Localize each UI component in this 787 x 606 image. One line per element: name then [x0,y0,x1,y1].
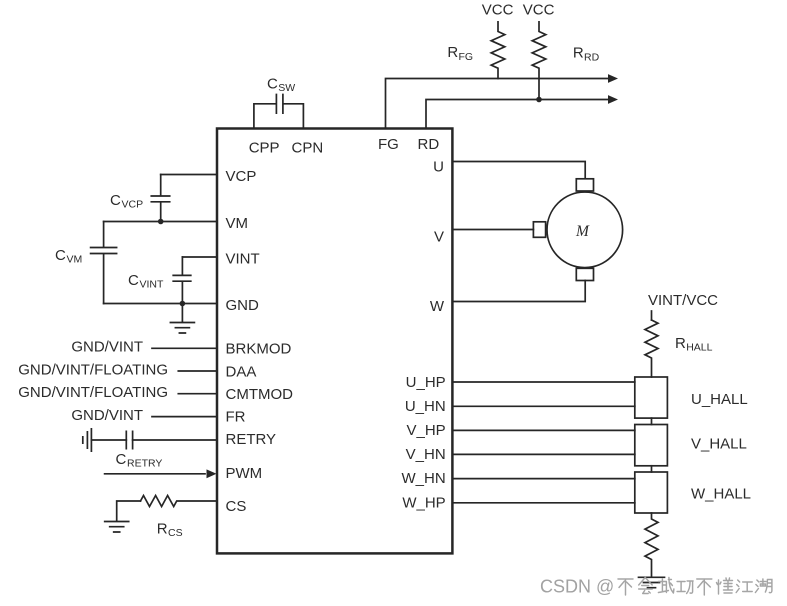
svg-text:V_HALL: V_HALL [691,436,747,453]
wire V_HP [452,429,634,431]
svg-text:W_HP: W_HP [402,495,445,512]
svg-text:CPP: CPP [249,140,280,157]
svg-text:C: C [55,247,66,264]
pin GND wire [104,303,217,305]
svg-text:RETRY: RETRY [226,431,277,448]
svg-text:C: C [128,272,139,289]
svg-text:VM: VM [67,254,83,266]
svg-text:V: V [434,229,444,246]
svg-text:GND: GND [226,297,260,314]
wire DAA [178,370,217,372]
wire CS / ground leg [117,501,141,521]
resistor RCS [141,496,218,507]
svg-text:SW: SW [278,82,295,94]
svg-text:DAA: DAA [226,364,257,381]
svg-text:U_HP: U_HP [406,374,446,391]
wire RETRY right [133,439,217,441]
svg-text:C: C [267,76,278,93]
pin VCP wire [161,174,217,176]
wire W phase [452,281,585,302]
svg-text:R: R [573,45,584,62]
svg-text:VINT: VINT [140,279,165,291]
node junction on RD bus [536,97,542,103]
svg-text:VCP: VCP [122,199,144,211]
svg-text:W: W [430,298,445,315]
arrow PWM input [207,469,217,478]
svg-text:CSDN @: CSDN @ [540,577,614,597]
ground symbol (rotated, RETRY) [83,429,92,451]
motor terminal bottom [576,268,593,280]
pin VM wire [104,221,217,223]
capacitor CSW [254,95,304,129]
wire W_HN [452,478,634,480]
hall sensor W_HALL [635,472,668,513]
watermark chinese glyphs [618,578,772,596]
capacitor CRETRY [126,431,132,448]
svg-text:RD: RD [584,52,600,64]
svg-text:PWM: PWM [226,465,263,482]
ground symbol (GND pin) [170,304,194,334]
wire FR [152,416,217,418]
wire RD [426,100,609,129]
arrow FG output [608,74,618,83]
svg-text:C: C [116,451,127,468]
hall sensor V_HALL [635,425,668,466]
wire W_HP [452,502,634,504]
node junction VM/CVCP [158,219,164,225]
resistor hall bottom [645,513,658,577]
wire U phase [452,162,585,179]
op-amp U1 (main driver IC body) [217,129,452,554]
svg-text:R: R [447,44,458,61]
svg-text:CPN: CPN [292,140,324,157]
svg-text:VINT: VINT [226,251,260,268]
svg-text:VCC: VCC [482,2,514,19]
motor M1 body [547,192,623,268]
svg-text:CMTMOD: CMTMOD [226,386,294,403]
svg-text:U: U [433,159,444,176]
ground symbol (RCS) [105,522,129,533]
node junction GND/CVINT [180,301,186,307]
hall sensor U_HALL [635,377,668,418]
capacitor CVINT [173,257,191,304]
svg-text:RETRY: RETRY [127,458,162,470]
svg-text:V_HP: V_HP [407,422,446,439]
svg-text:M: M [575,223,590,240]
svg-text:RD: RD [418,136,440,153]
svg-text:C: C [110,192,121,209]
ground symbol (hall bottom) [639,577,665,587]
svg-text:W_HALL: W_HALL [691,486,751,503]
wire V_HN [452,453,634,455]
resistor RRD [532,22,546,100]
wire BRKMOD [152,347,217,349]
svg-text:VCP: VCP [226,168,257,185]
svg-text:GND/VINT/FLOATING: GND/VINT/FLOATING [18,362,168,379]
svg-text:GND/VINT: GND/VINT [71,339,143,356]
svg-text:CS: CS [226,498,247,515]
svg-text:GND/VINT: GND/VINT [71,407,143,424]
svg-text:GND/VINT/FLOATING: GND/VINT/FLOATING [18,384,168,401]
wire U_HALL to V_HALL [651,418,653,424]
capacitor CVM [91,222,117,304]
svg-text:R: R [157,521,168,538]
motor terminal left [533,222,545,238]
svg-text:CS: CS [168,527,183,539]
svg-text:BRKMOD: BRKMOD [226,341,292,358]
wire RETRY left [91,439,126,441]
svg-text:U_HALL: U_HALL [691,391,748,408]
svg-text:FR: FR [226,409,246,426]
wire U_HN [452,405,634,407]
wire V phase [452,229,533,231]
svg-text:FG: FG [378,136,399,153]
wire CMTMOD [178,393,217,395]
capacitor CVCP [151,175,169,222]
resistor RFG [491,22,505,79]
wire V_HALL to W_HALL [651,466,653,472]
svg-text:HALL: HALL [686,342,712,354]
svg-text:V_HN: V_HN [406,446,446,463]
svg-text:VCC: VCC [523,2,555,19]
resistor RHALL [645,320,658,377]
svg-text:R: R [675,335,686,352]
wire FG [386,79,610,129]
pin VINT wire [182,256,217,258]
wire U_HP [452,381,634,383]
wire PWM [105,473,205,475]
wire VINT/VCC to RHALL [651,311,653,320]
svg-text:VINT/VCC: VINT/VCC [648,292,718,309]
arrow RD output [608,95,618,104]
motor terminal top [576,179,593,191]
svg-text:VM: VM [226,215,249,232]
svg-text:W_HN: W_HN [402,470,446,487]
svg-text:FG: FG [459,51,474,63]
svg-text:U_HN: U_HN [405,398,446,415]
